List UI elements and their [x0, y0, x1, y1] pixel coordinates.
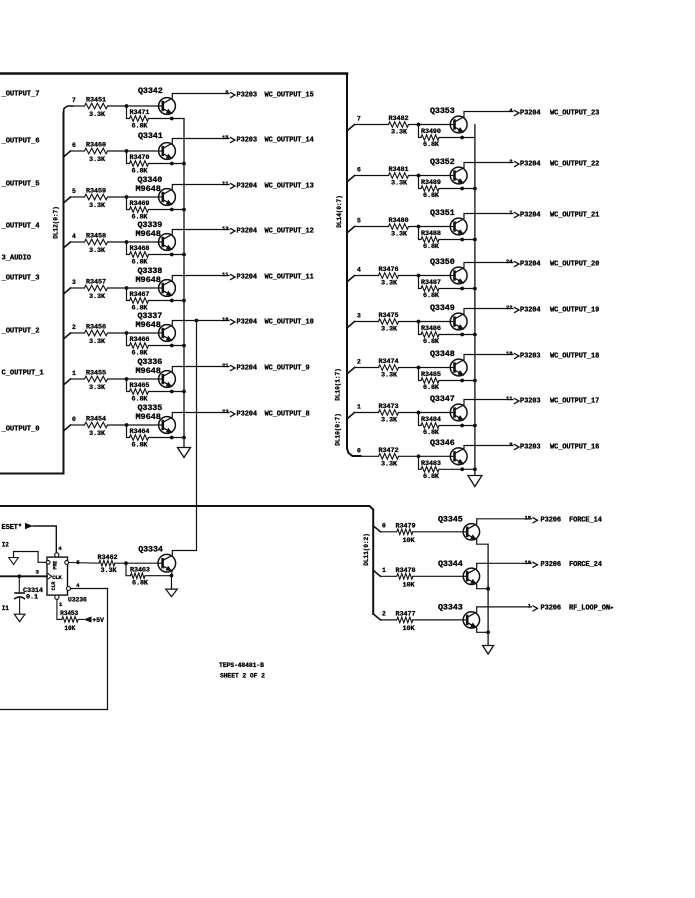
svg-text:P3204: P3204: [237, 410, 258, 418]
svg-text:R3471: R3471: [130, 109, 150, 117]
node junction: [124, 561, 128, 565]
svg-text:4: 4: [357, 267, 361, 274]
node emitter junction: [460, 467, 464, 471]
svg-text:R3476: R3476: [379, 266, 399, 274]
wire to base: [108, 241, 159, 243]
svg-text:Q3346: Q3346: [430, 438, 455, 448]
svg-text:13: 13: [222, 225, 229, 232]
transistor Q3339: [159, 234, 176, 251]
svg-text:11: 11: [222, 180, 229, 187]
node Q3349 tap 3: [348, 322, 355, 328]
svg-text:5: 5: [76, 559, 80, 566]
resistor R3465 6.8K: [127, 379, 130, 392]
svg-text:0: 0: [382, 522, 386, 529]
wire base row: [71, 150, 85, 152]
svg-text:Q3347: Q3347: [430, 394, 455, 404]
wire base row: [381, 575, 397, 577]
node bus junction: [182, 436, 186, 440]
svg-text:5: 5: [225, 89, 229, 96]
svg-text:WC_OUTPUT_16: WC_OUTPUT_16: [550, 443, 599, 451]
svg-text:24: 24: [506, 258, 513, 265]
svg-text:Q3353: Q3353: [430, 106, 455, 116]
svg-text:P3204: P3204: [520, 306, 541, 314]
node Q3351 tap 5: [348, 227, 355, 233]
svg-text:6.8K: 6.8K: [423, 192, 440, 200]
node emitter junction: [460, 333, 464, 337]
svg-text:DL10(1:7): DL10(1:7): [335, 368, 342, 401]
node junction: [125, 331, 129, 335]
svg-text:P3204: P3204: [520, 160, 541, 168]
svg-text:15: 15: [524, 514, 531, 521]
node Q3344 tap 1: [373, 570, 380, 576]
wire collector to connector: [464, 355, 513, 360]
wire to base: [413, 575, 463, 577]
svg-text:R3473: R3473: [379, 403, 399, 411]
svg-text:7: 7: [357, 116, 361, 123]
wire base row: [355, 175, 389, 177]
svg-text:10K: 10K: [403, 581, 416, 589]
svg-text:16: 16: [524, 559, 531, 566]
node bus junction: [473, 424, 477, 428]
svg-text:WC_OUTPUT_22: WC_OUTPUT_22: [550, 160, 599, 168]
wire base row: [71, 241, 85, 243]
wire collector to connector: [464, 263, 513, 268]
resistor R3490 6.8K: [419, 125, 422, 138]
node Q3341 tap 6: [64, 151, 71, 157]
wire to base: [409, 175, 450, 177]
resistor R3464 6.8K: [127, 425, 130, 438]
wire collector to connector: [464, 446, 513, 449]
node emitter junction: [460, 187, 464, 191]
svg-text:Q3334: Q3334: [138, 545, 163, 555]
svg-text:R3465: R3465: [130, 382, 150, 390]
svg-text:P3203: P3203: [237, 91, 258, 99]
transistor Q3348: [450, 359, 467, 376]
svg-text:3: 3: [72, 279, 76, 286]
svg-text:Q3351: Q3351: [430, 208, 455, 218]
svg-text:3.3K: 3.3K: [89, 293, 106, 301]
transistor Q3350: [450, 267, 467, 284]
svg-text:10K: 10K: [403, 537, 416, 545]
ground Q3334: [166, 589, 178, 597]
node bus junction: [486, 587, 490, 591]
ground: [14, 614, 25, 622]
resistor R3488 6.8K: [419, 227, 422, 240]
svg-text:Q3345: Q3345: [438, 514, 463, 524]
svg-text:3_AUDIO: 3_AUDIO: [2, 254, 32, 262]
svg-text:P3203: P3203: [520, 352, 541, 360]
svg-text:U3236: U3236: [68, 596, 87, 603]
svg-text:1: 1: [59, 601, 63, 608]
resistor R3487 6.8K: [419, 276, 422, 289]
wire to base: [409, 226, 450, 228]
svg-text:0.1: 0.1: [26, 593, 38, 601]
node bus junction: [182, 162, 186, 166]
svg-text:+5V: +5V: [92, 617, 104, 624]
wire collector to connector: [464, 309, 513, 314]
svg-text:2: 2: [72, 324, 76, 331]
wire collector to connector: [464, 400, 513, 405]
svg-text:_OUTPUT_3: _OUTPUT_3: [1, 274, 40, 282]
node bus junction: [182, 253, 186, 257]
svg-text:3.3K: 3.3K: [381, 372, 398, 380]
svg-text:WC_OUTPUT_9: WC_OUTPUT_9: [265, 364, 310, 372]
svg-text:SHEET 2 OF 2: SHEET 2 OF 2: [220, 673, 265, 680]
node junction: [417, 174, 421, 178]
svg-text:10K: 10K: [64, 625, 75, 632]
svg-text:P3204: P3204: [237, 182, 258, 190]
svg-text:15: 15: [222, 134, 229, 141]
resistor R3489 6.8K: [419, 176, 422, 189]
svg-text:R3467: R3467: [130, 291, 150, 299]
wire base row: [71, 332, 85, 334]
transistor Q3340: [159, 189, 176, 206]
svg-text:11: 11: [506, 395, 513, 402]
svg-text:CLK: CLK: [52, 574, 62, 581]
svg-text:CLR: CLR: [51, 582, 57, 591]
wire collector to connector: [464, 112, 513, 117]
svg-text:1: 1: [357, 404, 361, 411]
wire collector to connector: [464, 214, 513, 219]
svg-text:4: 4: [509, 107, 513, 114]
svg-text:R3463: R3463: [130, 566, 150, 574]
node Q3347 tap 1: [348, 413, 355, 419]
wire base row: [355, 226, 389, 228]
svg-text:3.3K: 3.3K: [89, 247, 106, 255]
svg-text:18: 18: [506, 350, 513, 357]
node junction: [417, 320, 421, 324]
node Q3345 tap 0: [373, 526, 380, 532]
node bus junction: [182, 390, 186, 394]
transistor Q3338: [159, 280, 176, 297]
svg-text:6: 6: [357, 167, 361, 174]
capacitor C3314 0.1: [18, 576, 20, 593]
svg-text:WC_OUTPUT_14: WC_OUTPUT_14: [265, 136, 314, 144]
svg-text:0: 0: [72, 416, 76, 423]
svg-text:DL14(0:7): DL14(0:7): [336, 195, 343, 228]
svg-text:6.8K: 6.8K: [132, 579, 149, 587]
resistor R3469 6.8K: [127, 197, 130, 210]
wire collector to connector: [464, 163, 513, 168]
wire collector to connector: [172, 367, 229, 372]
svg-text:3.3K: 3.3K: [89, 430, 106, 438]
resistor R3463 6.8K: [126, 563, 131, 576]
node junction: [417, 366, 421, 370]
svg-text:3.3K: 3.3K: [89, 202, 106, 210]
svg-text:P3206: P3206: [541, 561, 562, 569]
node bus junction: [486, 630, 490, 634]
node emitter junction: [170, 299, 174, 303]
svg-text:P3203: P3203: [237, 136, 258, 144]
wire collector to connector: [172, 413, 229, 418]
transistor Q3344: [463, 568, 479, 584]
svg-text:P3203: P3203: [520, 397, 541, 405]
wire long feed line: [1, 506, 374, 614]
transistor Q3343: [463, 612, 479, 628]
wire base row: [355, 455, 379, 457]
wire emitter to bus: [477, 584, 488, 589]
node junction: [417, 411, 421, 415]
node bus junction: [182, 344, 186, 348]
node bus junction: [473, 187, 477, 191]
svg-text:10K: 10K: [403, 625, 416, 633]
emitter bus right column: [474, 125, 476, 476]
svg-text:3.3K: 3.3K: [391, 231, 408, 239]
node emitter junction: [170, 436, 174, 440]
svg-text:M9648: M9648: [136, 366, 161, 376]
svg-text:TEPS-48481-B: TEPS-48481-B: [219, 662, 264, 669]
node emitter junction: [170, 117, 174, 121]
svg-text:1: 1: [509, 209, 513, 216]
svg-text:R3474: R3474: [379, 358, 399, 366]
node junction: [125, 423, 129, 427]
transistor Q3336: [159, 371, 176, 388]
transistor Q3337: [159, 325, 176, 342]
svg-text:11: 11: [222, 271, 229, 278]
node bus junction: [473, 287, 477, 291]
svg-text:R3468: R3468: [130, 245, 150, 253]
svg-text:Q3350: Q3350: [430, 257, 455, 267]
node Q3336 tap 1: [64, 379, 71, 385]
node emitter junction: [460, 379, 464, 383]
resistor R3467 6.8K: [127, 288, 130, 301]
node junction: [417, 454, 421, 458]
svg-text:R3470: R3470: [130, 154, 150, 162]
wire to base: [413, 619, 463, 621]
svg-text:3.3K: 3.3K: [89, 156, 106, 164]
svg-text:5: 5: [357, 218, 361, 225]
wire RESET* to PRE pin: [33, 526, 56, 553]
node junction: [125, 377, 129, 381]
svg-text:22: 22: [506, 304, 513, 311]
wire base row: [71, 424, 85, 426]
bus DL14(0-7) right edge of module box: [347, 74, 361, 457]
wire base row: [71, 287, 85, 289]
transistor Q3347: [450, 404, 467, 421]
node emitter junction: [460, 238, 464, 242]
svg-text:R3472: R3472: [379, 447, 399, 455]
transistor Q3335: [159, 417, 176, 434]
svg-text:R3466: R3466: [130, 336, 150, 344]
svg-text:DL10(0:7): DL10(0:7): [335, 413, 342, 446]
svg-text:P3204: P3204: [520, 109, 541, 117]
svg-text:3.3K: 3.3K: [381, 326, 398, 334]
node junction: [417, 274, 421, 278]
svg-text:2: 2: [357, 359, 361, 366]
node bus junction: [182, 208, 186, 212]
transistor Q3342: [159, 98, 176, 115]
svg-text:I1: I1: [2, 605, 10, 612]
node emitter junction: [170, 344, 174, 348]
emitter bus bottom group: [487, 544, 489, 645]
wire to base: [108, 196, 159, 198]
node Q3340 tap 5: [64, 197, 71, 203]
svg-text:M9648: M9648: [136, 275, 161, 285]
wire collector to connector: [172, 139, 229, 144]
svg-text:FORCE_14: FORCE_14: [569, 517, 602, 525]
transistor Q3341: [159, 143, 176, 160]
svg-text:P3206: P3206: [541, 605, 562, 613]
node bus junction: [473, 333, 477, 337]
svg-text:DL12(0:7): DL12(0:7): [53, 206, 60, 239]
svg-text:4: 4: [72, 233, 76, 240]
svg-text:FORCE_24: FORCE_24: [569, 561, 602, 569]
svg-text:6.8K: 6.8K: [423, 338, 440, 346]
svg-text:I2: I2: [2, 542, 10, 549]
svg-text:WC_OUTPUT_8: WC_OUTPUT_8: [265, 410, 310, 418]
svg-text:3.3K: 3.3K: [101, 567, 118, 575]
svg-text:6.8K: 6.8K: [423, 292, 440, 300]
svg-text:P3204: P3204: [237, 227, 258, 235]
wire collector to connector: [477, 519, 532, 524]
U3236 flip-flop: [47, 557, 68, 595]
svg-text:WC_OUTPUT_19: WC_OUTPUT_19: [550, 306, 599, 314]
wire collector to connector: [172, 185, 229, 190]
node Q3348 tap 2: [348, 368, 355, 374]
node junction: [417, 225, 421, 229]
wire to base: [108, 287, 159, 289]
ground bottom group: [483, 646, 494, 655]
resistor R3486 6.8K: [419, 322, 422, 335]
resistor R3484 6.8K: [419, 413, 422, 426]
svg-text:P3204: P3204: [520, 260, 541, 268]
svg-text:WC_OUTPUT_12: WC_OUTPUT_12: [265, 227, 314, 235]
node junction: [417, 123, 421, 127]
svg-text:3.3K: 3.3K: [381, 280, 398, 288]
svg-text:6: 6: [72, 142, 76, 149]
wire to base: [108, 332, 159, 334]
svg-text:PRE: PRE: [53, 561, 59, 570]
svg-text:Q3344: Q3344: [438, 559, 463, 569]
node emitter junction: [460, 424, 464, 428]
wire emitter to bus: [477, 540, 488, 545]
transistor Q3349: [450, 313, 467, 330]
transistor Q3345: [463, 524, 479, 540]
svg-text:3.3K: 3.3K: [391, 180, 408, 188]
transistor Q3352: [450, 167, 467, 184]
resistor R3483 6.8K: [419, 456, 422, 469]
svg-text:3.3K: 3.3K: [89, 111, 106, 119]
node emitter junction: [170, 162, 174, 166]
svg-text:P3204: P3204: [237, 273, 258, 281]
svg-text:R3475: R3475: [379, 312, 399, 320]
svg-text:R3481: R3481: [389, 166, 409, 174]
svg-text:M9648: M9648: [136, 320, 161, 330]
svg-text:WC_OUTPUT_21: WC_OUTPUT_21: [550, 211, 599, 219]
svg-text:Q3352: Q3352: [430, 157, 455, 167]
CLR pin 1 with pullup R3453 to +5V: [55, 595, 59, 599]
svg-text:P3204: P3204: [520, 211, 541, 219]
wire base row: [355, 367, 379, 369]
svg-text:3: 3: [357, 313, 361, 320]
node emitter junction: [170, 208, 174, 212]
svg-text:3.3K: 3.3K: [381, 460, 398, 468]
node emitter junction: [460, 136, 464, 140]
wire base row: [71, 105, 85, 107]
bus DL12(0-7): [1, 113, 64, 474]
svg-text:1: 1: [382, 567, 386, 574]
wire collector to connector: [172, 230, 229, 235]
node Q3352 tap 6: [348, 176, 355, 182]
node Q3339 tap 4: [64, 242, 71, 248]
svg-text:RF_LOOP_ON▸: RF_LOOP_ON▸: [569, 605, 614, 613]
svg-text:7: 7: [72, 97, 76, 104]
svg-text:6.8K: 6.8K: [132, 123, 149, 131]
node junction C3314: [17, 574, 21, 578]
svg-text:M9648: M9648: [136, 229, 161, 239]
resistor R3471 6.8K: [127, 106, 130, 119]
svg-text:3.3K: 3.3K: [89, 338, 106, 346]
svg-text:P3204: P3204: [237, 318, 258, 326]
node bus junction: [473, 238, 477, 242]
node junction to DL11 feed: [195, 319, 199, 323]
wire collector to connector: [172, 321, 229, 326]
svg-text:R3469: R3469: [130, 200, 150, 208]
svg-text:WC_OUTPUT_18: WC_OUTPUT_18: [550, 352, 599, 360]
svg-text:DL11(0:2): DL11(0:2): [363, 533, 370, 566]
wire base row: [71, 196, 85, 198]
wire base row: [355, 412, 379, 414]
wire to base: [409, 124, 450, 126]
svg-text:M9648: M9648: [136, 184, 161, 194]
resistor R3466 6.8K: [127, 333, 130, 346]
svg-text:Q3341: Q3341: [138, 131, 163, 141]
svg-text:_OUTPUT_4: _OUTPUT_4: [1, 222, 41, 230]
svg-text:WC_OUTPUT_17: WC_OUTPUT_17: [550, 397, 599, 405]
node emitter junction: [170, 253, 174, 257]
wire CLK input: [1, 575, 48, 577]
svg-text:WC_OUTPUT_10: WC_OUTPUT_10: [265, 318, 314, 326]
resistor R3485 6.8K: [419, 368, 422, 381]
svg-text:1: 1: [528, 602, 532, 609]
resistor R3468 6.8K: [127, 242, 130, 255]
svg-text:3: 3: [36, 569, 40, 576]
svg-text:_OUTPUT_5: _OUTPUT_5: [1, 180, 40, 188]
svg-text:23: 23: [222, 408, 229, 415]
svg-text:6.8K: 6.8K: [423, 473, 440, 481]
svg-text:P3203: P3203: [520, 443, 541, 451]
wire to base: [399, 321, 450, 323]
Q-bar output pin 5 wire: [65, 561, 69, 565]
node Q3350 tap 4: [348, 276, 355, 282]
node junction: [125, 149, 129, 153]
svg-text:Q3343: Q3343: [438, 602, 463, 612]
wire to base: [108, 424, 159, 426]
transistor Q3334: [158, 554, 176, 572]
wire WC_OUTPUT_10 node down to Q3334 collector: [172, 321, 196, 556]
wire to base: [413, 531, 463, 533]
svg-text:P3204: P3204: [237, 364, 258, 372]
wire to base: [399, 367, 450, 369]
svg-text:M9648: M9648: [136, 412, 161, 422]
svg-text:WC_OUTPUT_23: WC_OUTPUT_23: [550, 109, 599, 117]
wire collector to connector: [477, 563, 532, 568]
svg-text:R3480: R3480: [389, 217, 409, 225]
svg-text:6.8K: 6.8K: [423, 429, 440, 437]
wire base row: [381, 531, 397, 533]
svg-text:4: 4: [58, 545, 62, 552]
node emitter junction: [460, 287, 464, 291]
node D pin to ground loop: [46, 560, 50, 564]
wire to Q3334 base: [115, 562, 158, 564]
wire emitter to bus: [477, 628, 488, 633]
big module box top edge: [1, 72, 348, 75]
svg-text:C_OUTPUT_1: C_OUTPUT_1: [2, 369, 45, 377]
node bus junction: [182, 299, 186, 303]
node Q3342 tap 7: [64, 106, 73, 113]
svg-text:3.3K: 3.3K: [381, 417, 398, 425]
node Q3343 tap 2: [373, 614, 380, 620]
